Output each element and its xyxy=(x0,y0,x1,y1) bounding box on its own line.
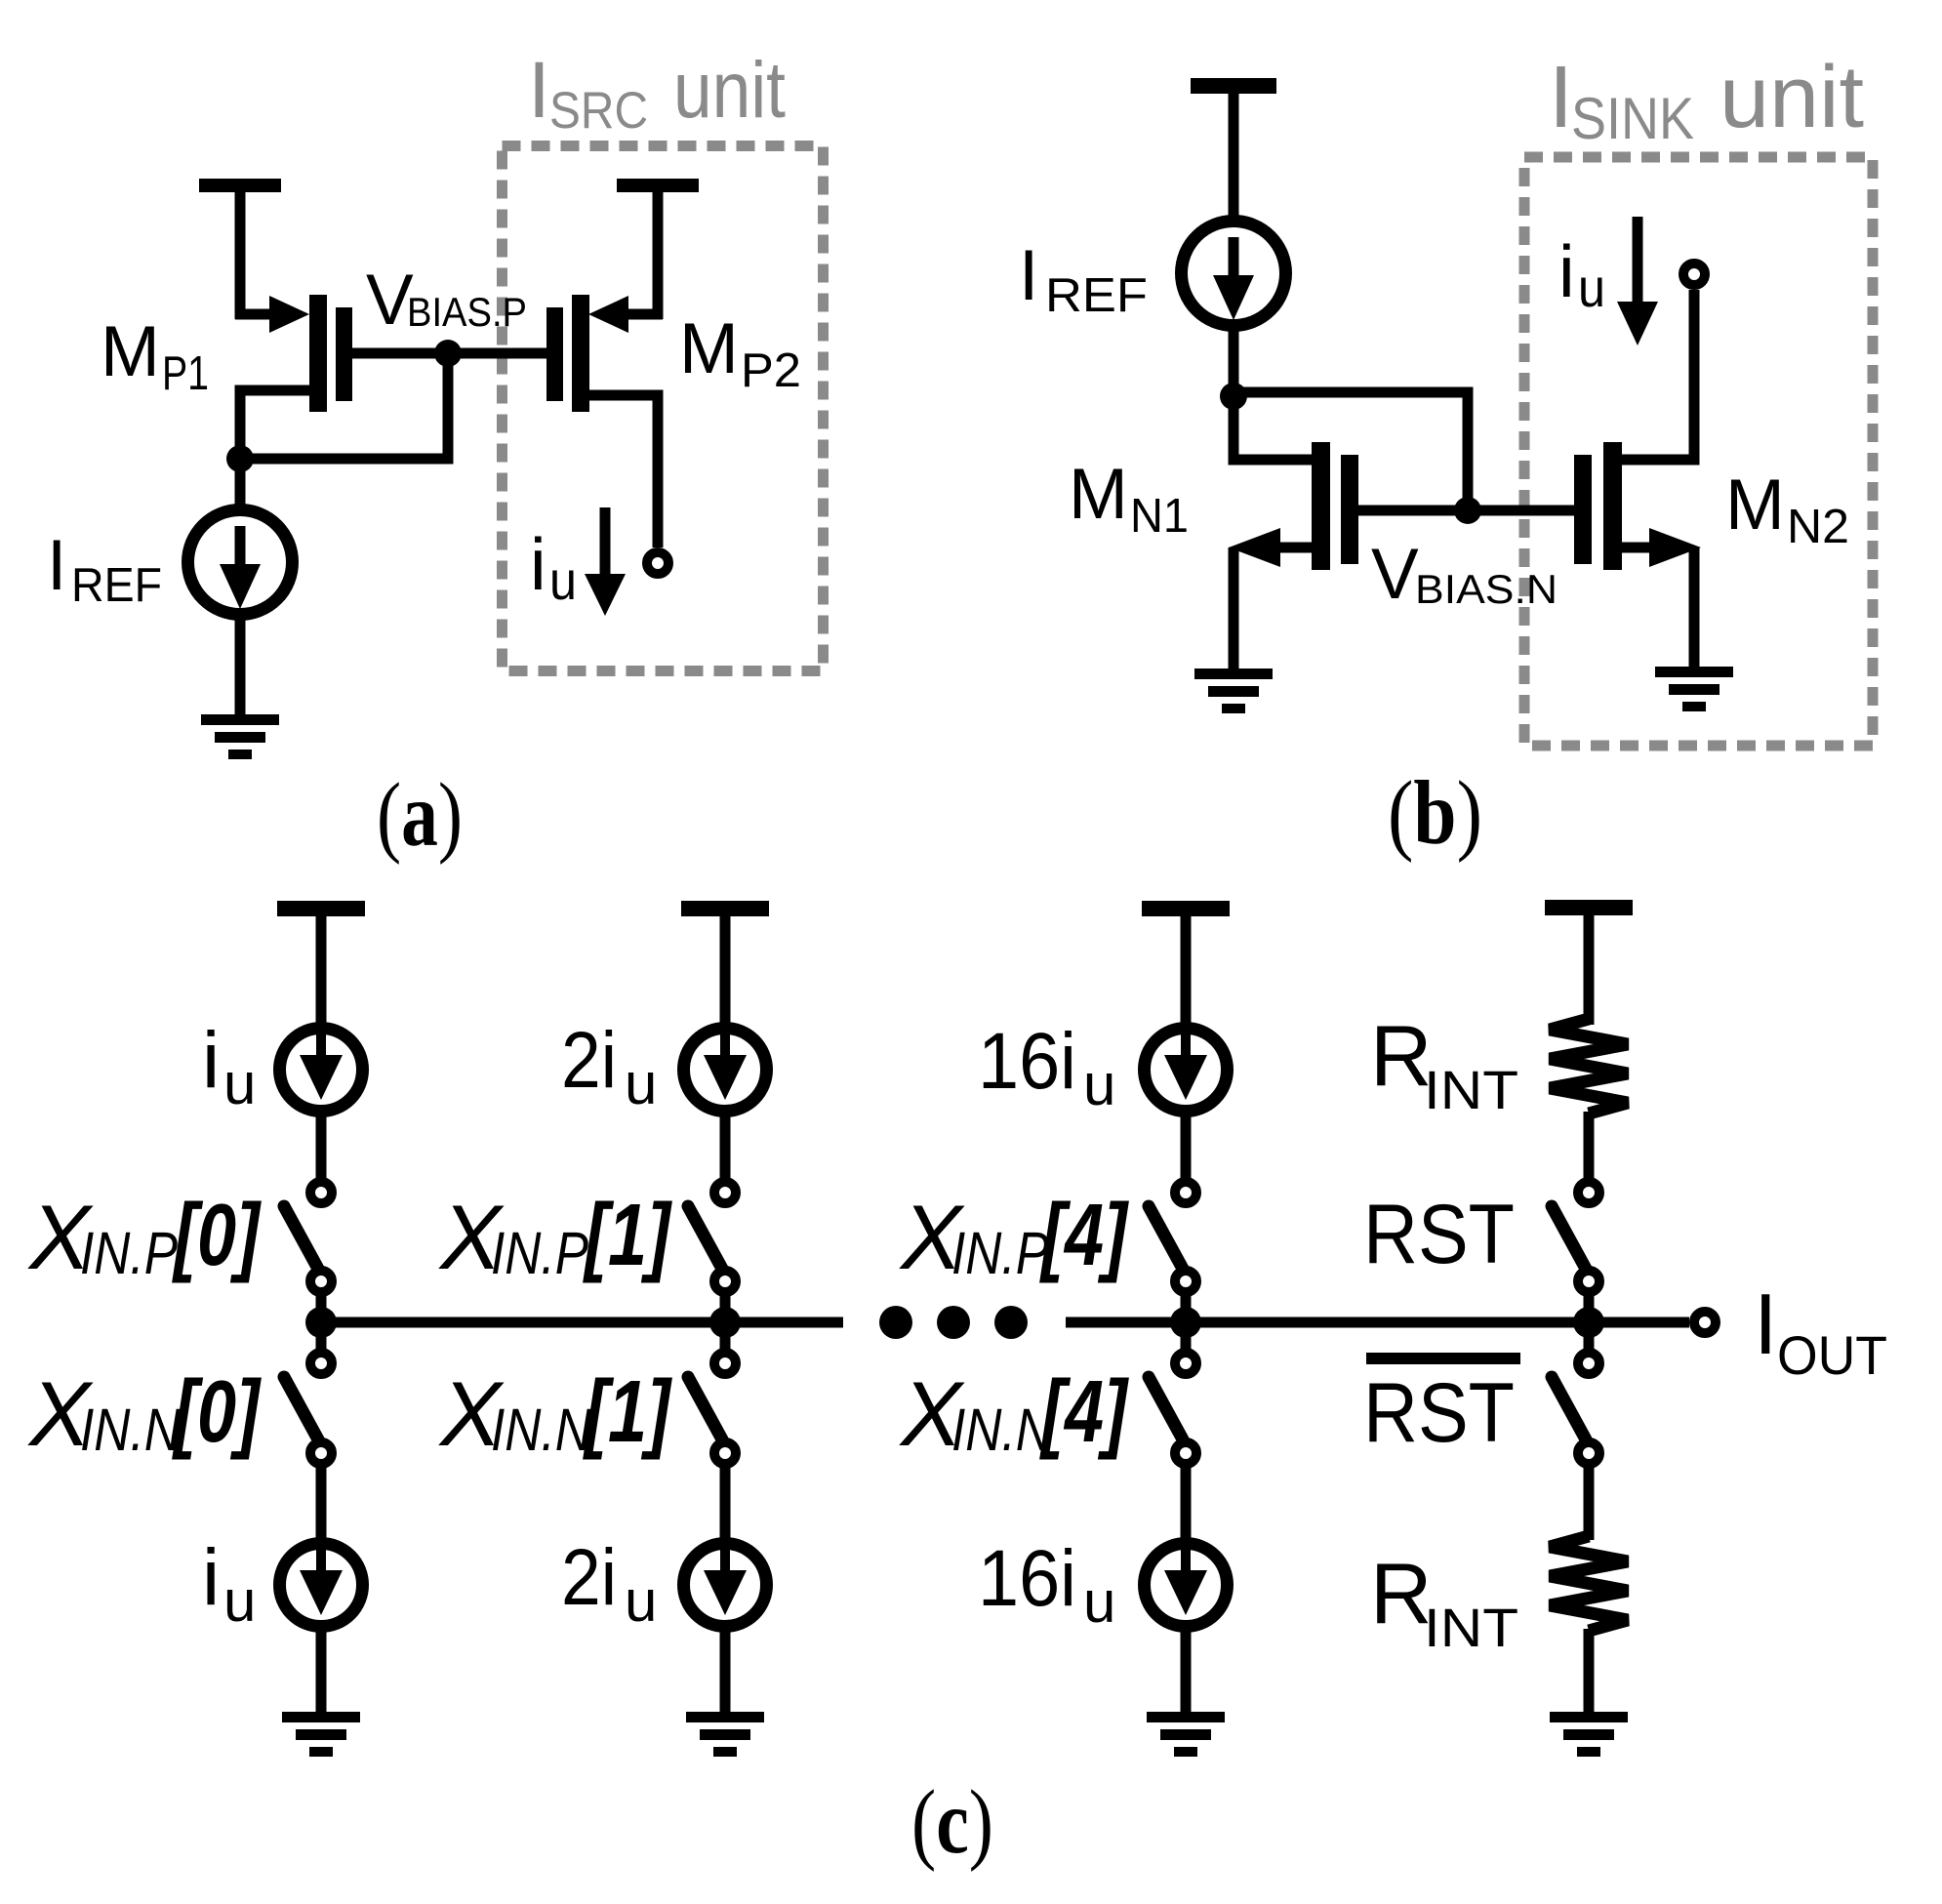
wire M_P1 source lead with arrow xyxy=(235,309,271,320)
transistor M_P1 channel bar xyxy=(309,295,327,412)
ground (b) left xyxy=(1194,668,1273,679)
contact circle 2i_u column N-switch upper xyxy=(714,1353,736,1374)
wire M_P2 source lead with arrow xyxy=(627,309,663,320)
svg-text:RST: RST xyxy=(1363,1366,1515,1460)
current source 2i_u column bottom xyxy=(684,1544,767,1627)
supply rail VDD (a) left xyxy=(199,179,281,192)
supply rail VDD (c) 16i_u column top xyxy=(1142,901,1230,916)
current source I_REF (a) xyxy=(188,510,293,615)
svg-text:SINK: SINK xyxy=(1571,86,1694,151)
transistor M_N2 gate bar xyxy=(1574,455,1592,564)
wire through bus node 16i_u column xyxy=(1181,1292,1192,1353)
svg-text:i: i xyxy=(202,1016,220,1105)
svg-text:P2: P2 xyxy=(741,344,801,397)
svg-text:INT: INT xyxy=(1424,1059,1518,1120)
contact circle 16i_u column N-switch lower xyxy=(1175,1442,1196,1464)
contact circle 2i_u column N-switch lower xyxy=(714,1442,736,1464)
wire VDD to resistor R_INT top xyxy=(1584,908,1595,1025)
wire output bus right segment xyxy=(1066,1317,1689,1328)
current source i_u column top xyxy=(280,1029,363,1112)
arrow i_u current direction (b) xyxy=(1633,217,1643,305)
wire node B down to M_N1 drain xyxy=(1234,396,1312,460)
switch blade i_u column N-switch xyxy=(284,1377,318,1439)
contact circle RSTbar switch upper xyxy=(1578,1353,1599,1374)
node dot on output bus 2i_u column xyxy=(709,1307,741,1338)
svg-text:N2: N2 xyxy=(1787,501,1849,553)
svg-text:unit: unit xyxy=(673,46,786,135)
svg-text:(c): (c) xyxy=(911,1772,993,1873)
svg-text:u: u xyxy=(549,549,577,611)
node V_BIAS.N dot xyxy=(1454,497,1481,524)
contact circle i_u column top source side xyxy=(310,1182,332,1203)
transistor M_N1 channel bar xyxy=(1312,442,1330,570)
label RST-bar with overline xyxy=(1366,1353,1520,1364)
node dot on output bus resistor column xyxy=(1573,1307,1604,1338)
current source 2i_u column top xyxy=(684,1029,767,1112)
resistor R_INT bottom zigzag xyxy=(1550,1536,1628,1631)
node dot on output bus i_u column xyxy=(305,1307,337,1338)
svg-text:IN.N: IN.N xyxy=(80,1397,182,1463)
wire current source to switch contact 2i_u column top xyxy=(720,1114,731,1185)
wire node B to gate node (diode connection) xyxy=(1234,392,1468,510)
arrow i_u current direction (a) xyxy=(600,507,611,580)
svg-text:[1]: [1] xyxy=(583,1187,673,1284)
wire VDD to current source i_u column top xyxy=(316,909,327,1034)
switch blade RSTbar xyxy=(1552,1377,1586,1439)
svg-text:[1]: [1] xyxy=(583,1363,673,1461)
svg-text:u: u xyxy=(625,1051,657,1116)
transistor M_P2 channel bar xyxy=(572,295,589,412)
svg-text:u: u xyxy=(223,1051,256,1116)
wire M_N2 source lead with arrow xyxy=(1621,543,1659,553)
svg-text:IN.N: IN.N xyxy=(491,1397,592,1463)
resistor R_INT top zigzag xyxy=(1550,1019,1628,1114)
transistor M_P2 gate bar xyxy=(546,307,563,401)
current source i_u column bottom xyxy=(280,1544,363,1627)
wire VDD to M_P2 source xyxy=(653,185,664,319)
wire VDD to I_REF (b) xyxy=(1229,86,1239,226)
svg-text:[4]: [4] xyxy=(1039,1187,1130,1284)
svg-text:2i: 2i xyxy=(561,1533,617,1622)
switch blade i_u column P-switch xyxy=(284,1206,318,1269)
svg-text:i: i xyxy=(202,1533,220,1622)
transistor M_P1 gate bar xyxy=(336,307,352,401)
wire output bus left segment xyxy=(321,1317,843,1328)
wire current source to ground 16i_u column xyxy=(1181,1630,1192,1715)
contact circle i_u column N-switch upper xyxy=(310,1353,332,1374)
contact circle RST switch lower xyxy=(1578,1271,1599,1292)
node V_BIAS.P dot xyxy=(434,340,462,367)
wire node A to gate node (diode connection) xyxy=(240,360,448,459)
wire I_REF to ground (a) xyxy=(235,611,246,717)
svg-text:u: u xyxy=(1578,257,1605,318)
wire resistor to RST switch xyxy=(1584,1112,1595,1185)
svg-text:u: u xyxy=(223,1568,256,1634)
supply rail VDD (c) i_u column top xyxy=(277,901,365,916)
transistor M_N2 channel bar xyxy=(1603,442,1622,570)
switch blade 2i_u column N-switch xyxy=(688,1377,722,1439)
svg-text:I: I xyxy=(528,46,550,135)
svg-text:M: M xyxy=(1725,466,1785,545)
wire through bus node i_u column xyxy=(316,1292,327,1353)
wire switch to current source 2i_u column bottom xyxy=(720,1462,731,1544)
ground (c) i_u column xyxy=(282,1712,360,1722)
svg-text:REF: REF xyxy=(71,559,162,612)
ground (c) 2i_u column xyxy=(686,1712,764,1722)
svg-text:u: u xyxy=(1083,1569,1115,1635)
ground (a) xyxy=(201,714,279,725)
wire current source to switch contact 16i_u column top xyxy=(1181,1114,1192,1185)
wire node A to I_REF source xyxy=(235,459,246,515)
svg-text:u: u xyxy=(1083,1052,1115,1117)
svg-text:M: M xyxy=(679,309,739,388)
svg-text:i: i xyxy=(1558,230,1575,312)
switch blade 2i_u column P-switch xyxy=(688,1206,722,1269)
terminal open circle I_OUT xyxy=(1694,1312,1716,1333)
svg-text:[0]: [0] xyxy=(172,1363,263,1461)
svg-text:I: I xyxy=(1019,236,1038,315)
wire VDD to current source 2i_u column top xyxy=(720,909,731,1034)
svg-text:IN.P: IN.P xyxy=(491,1220,588,1286)
wire switch to current source i_u column bottom xyxy=(316,1462,327,1544)
svg-text:unit: unit xyxy=(1719,49,1864,146)
contact circle 2i_u column top source side xyxy=(714,1182,736,1203)
svg-text:2i: 2i xyxy=(561,1016,617,1105)
svg-text:IN.N: IN.N xyxy=(951,1397,1053,1463)
svg-text:16i: 16i xyxy=(978,1534,1076,1623)
wire current source to ground i_u column xyxy=(316,1630,327,1715)
svg-text:V: V xyxy=(1371,535,1419,614)
contact circle i_u column N-switch lower xyxy=(310,1442,332,1464)
svg-text:I: I xyxy=(1754,1276,1777,1372)
contact circle 16i_u column P-switch lower xyxy=(1175,1271,1196,1292)
ground (c) resistor column xyxy=(1550,1712,1628,1722)
wire M_P1 drain down to node A xyxy=(240,390,309,459)
svg-text:OUT: OUT xyxy=(1777,1324,1887,1386)
node dot on output bus 16i_u column xyxy=(1170,1307,1201,1338)
svg-text:IN.P: IN.P xyxy=(80,1220,178,1286)
wire switch to current source 16i_u column bottom xyxy=(1181,1462,1192,1544)
contact circle 16i_u column top source side xyxy=(1175,1182,1196,1203)
contact circle i_u column P-switch lower xyxy=(310,1271,332,1292)
svg-text:(b): (b) xyxy=(1388,763,1482,864)
svg-text:BIAS.N: BIAS.N xyxy=(1415,566,1558,612)
wire current source to ground 2i_u column xyxy=(720,1630,731,1715)
wire VDD to current source 16i_u column top xyxy=(1181,909,1192,1034)
svg-text:I: I xyxy=(1549,49,1573,146)
contact circle 2i_u column P-switch lower xyxy=(714,1271,736,1292)
wire M_N2 drain to input terminal xyxy=(1621,290,1694,460)
svg-text:[4]: [4] xyxy=(1039,1363,1130,1461)
wire M_P2 drain to output terminal xyxy=(589,395,658,547)
wire M_N1 source to ground xyxy=(1229,547,1239,671)
dashed box I_SRC unit xyxy=(503,146,824,671)
supply rail VDD (c) 2i_u column top xyxy=(681,901,769,916)
wire current source to switch contact i_u column top xyxy=(316,1114,327,1185)
svg-text:REF: REF xyxy=(1045,269,1148,322)
wire M_N1 gate to M_N2 gate xyxy=(1358,506,1574,516)
wire through bus node resistor column xyxy=(1584,1292,1595,1353)
dashed box I_SINK unit xyxy=(1524,157,1873,746)
wire resistor to ground (c) xyxy=(1584,1629,1595,1715)
contact circle 16i_u column N-switch upper xyxy=(1175,1353,1196,1374)
node A dot (M_P1 drain / I_REF) xyxy=(226,445,254,472)
svg-text:i: i xyxy=(530,523,546,605)
svg-text:16i: 16i xyxy=(978,1017,1076,1106)
current source 16i_u column bottom xyxy=(1145,1544,1228,1627)
switch blade 16i_u column N-switch xyxy=(1149,1377,1183,1439)
wire M_P1 gate to M_P2 gate xyxy=(352,348,546,359)
switch blade 16i_u column P-switch xyxy=(1149,1206,1183,1269)
wire through bus node 2i_u column xyxy=(720,1292,731,1353)
svg-text:BIAS.P: BIAS.P xyxy=(407,289,527,335)
ground (c) 16i_u column xyxy=(1147,1712,1225,1722)
wire I_REF to node B xyxy=(1229,322,1239,400)
supply rail VDD (b) xyxy=(1191,78,1276,94)
svg-text:u: u xyxy=(625,1568,657,1634)
svg-text:SRC: SRC xyxy=(549,82,648,140)
transistor M_N1 gate bar xyxy=(1341,455,1358,564)
terminal open circle i_u input (b) xyxy=(1683,263,1705,285)
contact circle RSTbar switch lower xyxy=(1578,1442,1599,1464)
supply rail VDD (c) resistor column xyxy=(1545,900,1633,915)
ground (b) right xyxy=(1655,667,1733,677)
svg-text:M: M xyxy=(1069,455,1128,534)
wire VDD to M_P1 source xyxy=(235,185,246,319)
svg-text:RST: RST xyxy=(1363,1188,1515,1281)
contact circle RST switch upper xyxy=(1578,1182,1599,1203)
current source 16i_u column top xyxy=(1145,1029,1228,1112)
svg-text:IN.P: IN.P xyxy=(951,1220,1049,1286)
svg-text:P1: P1 xyxy=(162,347,209,400)
svg-text:N1: N1 xyxy=(1130,490,1189,543)
terminal open circle i_u output (a) xyxy=(647,552,668,574)
svg-text:M: M xyxy=(101,312,160,391)
ellipsis dots on bus xyxy=(879,1306,912,1339)
switch blade RST xyxy=(1552,1206,1586,1269)
wire M_N1 source lead with arrow xyxy=(1269,543,1312,553)
wire M_N2 source to ground xyxy=(1689,547,1700,669)
svg-text:[0]: [0] xyxy=(172,1187,263,1284)
svg-text:INT: INT xyxy=(1424,1597,1518,1658)
node B dot (I_REF / M_N1 drain) xyxy=(1220,383,1247,410)
supply rail VDD (a) right xyxy=(617,179,699,192)
svg-text:I: I xyxy=(47,526,66,605)
svg-text:(a): (a) xyxy=(377,765,463,866)
current source I_REF (b) xyxy=(1182,222,1286,326)
wire switch to resistor R_INT bottom xyxy=(1584,1462,1595,1540)
